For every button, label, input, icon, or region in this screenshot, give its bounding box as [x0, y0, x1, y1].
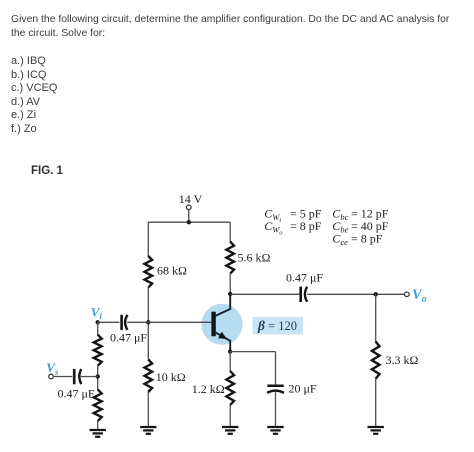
transistor Q1 shaded circle highlight — [201, 304, 242, 345]
svg-text:20 μF: 20 μF — [289, 382, 317, 396]
svg-text:68 kΩ: 68 kΩ — [157, 264, 187, 278]
resistor RinB unlabeled — [94, 390, 102, 422]
wire emitter to RE — [229, 352, 231, 372]
wire R2 bottom to ground — [147, 392, 149, 426]
output terminal circle — [405, 292, 410, 297]
list item b — [11, 69, 46, 81]
capacitor C1 0.47 uF input — [122, 315, 128, 330]
ground under R2 — [140, 427, 156, 434]
wire Vi node to input cap — [98, 321, 120, 323]
supply terminal circle 14 V — [187, 205, 192, 210]
svg-text:0.47 μF: 0.47 μF — [110, 331, 147, 345]
list item d — [11, 96, 40, 108]
junction input node Vi — [96, 320, 100, 324]
wire rail to RC top — [229, 222, 231, 242]
ground under RE — [222, 427, 238, 434]
resistor RE 1.2 kOhm — [226, 371, 234, 405]
junction source node — [96, 374, 100, 378]
list item c — [11, 82, 57, 94]
svg-text:10 kΩ: 10 kΩ — [156, 370, 186, 384]
capacitor CE 20 uF — [267, 386, 284, 393]
collector lead — [216, 294, 231, 316]
wire RinB to ground — [97, 421, 99, 429]
junction collector node — [228, 292, 232, 296]
svg-text:Cce= 8 pF: Cce= 8 pF — [332, 231, 382, 247]
ground under RinB — [90, 430, 106, 437]
svg-text:Vo: Vo — [412, 287, 427, 305]
wire CE to ground — [275, 392, 277, 426]
junction base-divider node — [146, 320, 150, 324]
wire supply to rail — [188, 210, 190, 223]
wire emitter node to bypass branch — [230, 351, 275, 353]
figure caption FIG. 1 — [31, 165, 63, 177]
wire input cap to base — [127, 321, 211, 323]
wire top rail — [148, 221, 230, 223]
resistor R1 68 kOhm — [145, 256, 153, 288]
svg-text:3.3 kΩ: 3.3 kΩ — [386, 353, 419, 367]
wire source cap to source junction — [81, 376, 98, 378]
wire bypass branch down to CE — [275, 352, 277, 385]
svg-text:0.47 μF: 0.47 μF — [286, 271, 323, 285]
wire RinA to source junction — [97, 366, 99, 390]
beta label box — [253, 317, 304, 335]
resistor RC 5.6 kOhm — [226, 242, 234, 274]
wire rail to R1 top — [147, 222, 149, 256]
problem statement paragraph — [11, 13, 463, 40]
junction load node — [374, 292, 378, 296]
wire RE bottom to ground — [229, 405, 231, 426]
capacitor C2 0.47 uF output — [301, 287, 308, 302]
emitter lead — [216, 333, 231, 352]
resistor RL 3.3 kOhm — [372, 342, 380, 379]
wire RC bottom to collector — [229, 274, 231, 310]
emitter arrow — [218, 332, 227, 339]
svg-text:14 V: 14 V — [179, 192, 203, 206]
list item a — [11, 55, 46, 67]
source terminal circle — [49, 374, 54, 379]
capacitor Cs 0.47 uF source — [74, 369, 81, 384]
wire load node to RL top — [375, 294, 377, 342]
svg-text:1.2 kΩ: 1.2 kΩ — [192, 382, 225, 396]
junction supply-rail — [187, 220, 191, 224]
svg-text:β = 120: β = 120 — [257, 318, 297, 333]
list item e — [11, 109, 36, 121]
base bar — [211, 312, 215, 337]
ground under CE — [267, 427, 283, 434]
wire RL bottom to ground — [375, 379, 377, 426]
svg-text:0.47 μF: 0.47 μF — [58, 386, 95, 400]
svg-text:5.6 kΩ: 5.6 kΩ — [238, 251, 271, 265]
resistor RinA unlabeled — [94, 335, 102, 366]
wire source terminal to source cap — [53, 376, 72, 378]
junction emitter node — [228, 349, 232, 353]
wire R1 bottom to base node — [147, 288, 149, 360]
svg-text:Vi: Vi — [91, 304, 103, 321]
list item f — [11, 123, 37, 135]
wire output cap to Vo terminal — [307, 293, 404, 295]
transistor Q1 symbol — [211, 294, 230, 352]
wire Vi node down to RinA — [97, 322, 99, 335]
ground under RL — [368, 427, 384, 434]
wire collector node to output cap — [230, 293, 299, 295]
resistor R2 10 kOhm — [145, 360, 153, 393]
